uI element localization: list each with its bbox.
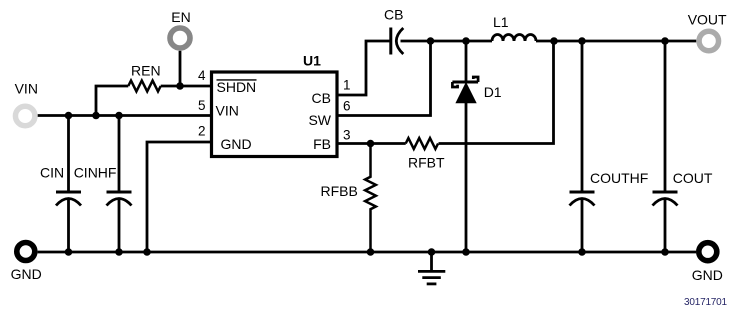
terminal GND right	[699, 243, 717, 261]
svg-text:CB: CB	[312, 90, 331, 106]
wire VIN rail	[38, 114, 211, 117]
svg-text:FB: FB	[313, 136, 331, 152]
wire CINHF bottom lead	[118, 199, 121, 252]
junction FB node	[367, 140, 375, 148]
wire ground rail	[38, 251, 696, 254]
wire CB pin up	[337, 41, 391, 95]
wire GND pin to ground rail	[147, 142, 211, 252]
junction VIN-CIN	[65, 112, 73, 120]
wire D1 anode lead	[465, 102, 468, 252]
junction rail-COUTHF	[578, 248, 586, 256]
svg-text:L1: L1	[493, 14, 509, 30]
svg-text:REN: REN	[131, 63, 161, 79]
wire CINHF top lead	[118, 116, 121, 191]
junction D1-rail	[462, 37, 470, 45]
capacitor CINHF	[107, 192, 132, 206]
svg-text:COUT: COUT	[673, 170, 713, 186]
svg-text:5: 5	[198, 98, 206, 113]
svg-text:RFBB: RFBB	[321, 183, 358, 199]
wire REN branch up	[96, 86, 128, 116]
wire COUTHF bottom lead	[581, 199, 584, 252]
svg-text:2: 2	[198, 124, 206, 139]
svg-text:VIN: VIN	[15, 81, 38, 97]
wire RFBT to VOUT	[439, 41, 554, 144]
wire CIN top lead	[67, 116, 70, 191]
capacitor CIN	[56, 192, 81, 206]
junction rail-CIN	[65, 248, 73, 256]
svg-text:GND: GND	[221, 136, 252, 152]
wire CB cap to SW node	[401, 40, 493, 43]
junction rail-CINHF	[115, 248, 123, 256]
ground symbol	[418, 252, 445, 284]
wire EN to SHDN node	[179, 51, 182, 86]
svg-text:SW: SW	[308, 112, 331, 128]
svg-text:CB: CB	[384, 7, 403, 23]
wire COUT top lead	[664, 41, 667, 191]
svg-text:VIN: VIN	[216, 103, 239, 119]
svg-text:GND: GND	[11, 266, 42, 282]
svg-text:30171701: 30171701	[684, 297, 728, 308]
junction rail-ground	[428, 248, 436, 256]
wire COUT bottom lead	[664, 199, 667, 252]
wire D1 cathode lead	[465, 41, 468, 82]
junction VOUT-COUTHF	[578, 37, 586, 45]
wire L1 to VOUT	[536, 40, 696, 43]
wire COUTHF top lead	[581, 41, 584, 191]
svg-text:3: 3	[343, 127, 351, 142]
inductor L1	[492, 35, 536, 42]
SHDN overline	[217, 79, 257, 81]
svg-text:SHDN: SHDN	[217, 79, 257, 95]
diode D1 (schottky)	[452, 77, 478, 103]
wire FB pin	[337, 142, 406, 145]
junction rail-GNDpin	[143, 248, 151, 256]
junction VOUT-COUT	[661, 37, 669, 45]
wire CIN bottom lead	[67, 199, 70, 252]
svg-text:4: 4	[198, 68, 206, 83]
svg-text:D1: D1	[484, 84, 502, 100]
svg-text:COUTHF: COUTHF	[590, 170, 648, 186]
capacitor CB	[391, 28, 404, 55]
op-amp U1 box	[212, 72, 338, 157]
capacitor COUT	[653, 192, 678, 206]
junction SHDN node	[176, 82, 184, 90]
junction VOUT-FB	[550, 37, 558, 45]
svg-text:CIN: CIN	[40, 165, 64, 181]
svg-text:EN: EN	[171, 9, 190, 25]
svg-text:GND: GND	[692, 267, 723, 283]
junction rail-D1	[462, 248, 470, 256]
terminal GND left	[17, 243, 35, 261]
svg-text:6: 6	[343, 98, 351, 113]
terminal EN	[170, 28, 190, 48]
junction rail-RFBB	[367, 248, 375, 256]
svg-text:VOUT: VOUT	[688, 11, 727, 27]
junction rail-COUT	[661, 248, 669, 256]
resistor RFBT	[406, 138, 438, 149]
svg-text:1: 1	[343, 78, 351, 93]
junction VIN-CINHF	[115, 112, 123, 120]
resistor REN	[128, 81, 160, 92]
terminal VIN	[15, 106, 35, 126]
junction SW-rail	[427, 37, 435, 45]
svg-text:U1: U1	[303, 53, 321, 69]
svg-text:CINHF: CINHF	[74, 165, 117, 181]
resistor RFBB	[365, 144, 376, 253]
svg-text:RFBT: RFBT	[408, 155, 445, 171]
wire SW pin up	[337, 41, 431, 116]
capacitor COUTHF	[570, 192, 595, 206]
junction VIN-REN	[92, 112, 100, 120]
wire REN to SHDN pin	[161, 85, 211, 88]
terminal VOUT	[699, 31, 719, 51]
